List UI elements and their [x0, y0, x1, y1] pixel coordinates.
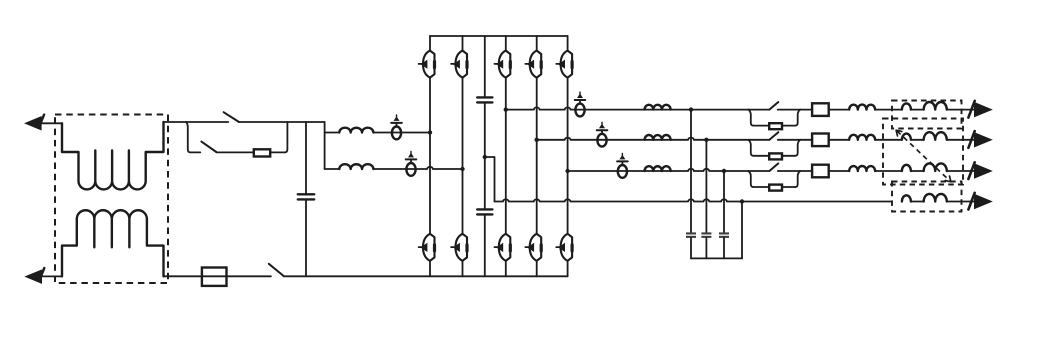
- resistor R3 (precharge): [769, 153, 782, 159]
- fuse FU1: [202, 268, 227, 286]
- wire cap bank bus: [691, 257, 742, 259]
- wire breaker left lead: [748, 109, 769, 111]
- wire fuse to inductor: [829, 170, 850, 172]
- wire through fuse: [202, 275, 227, 277]
- inductor L4b: [849, 105, 875, 110]
- wire to output module: [875, 109, 902, 111]
- wire leg4 lower: [536, 261, 538, 277]
- IGBT valve Q5 (top leg5): [568, 51, 573, 78]
- wire cap bank below Cc: [723, 238, 725, 259]
- wire bottom rail: [284, 275, 568, 277]
- wire transformer to switch: [164, 121, 187, 123]
- wire main after S1: [239, 121, 325, 123]
- wire phase B: [537, 138, 749, 140]
- wire leg1 middle: [429, 78, 431, 234]
- wire cap column lower: [305, 199, 307, 276]
- node A split to precharge branch: [186, 122, 190, 152]
- wire leg1 upper: [429, 36, 431, 51]
- inductor L5B (module choke): [902, 134, 911, 140]
- wire cap bank drop Cb: [705, 140, 707, 233]
- inductor L5A (module choke): [902, 103, 911, 109]
- ellipsis diagonal: [897, 131, 950, 181]
- wire breaker split corner: [748, 110, 753, 126]
- inductor L6N (module choke 2): [924, 194, 947, 202]
- wire module out C: [947, 170, 975, 172]
- inductor Lf2: [339, 164, 373, 169]
- IGBT valve Q6 (bottom leg1): [430, 234, 435, 261]
- IGBT valve Q4 (top leg4): [537, 51, 542, 78]
- wire DC link lower: [484, 214, 486, 276]
- fuse FU2: [812, 103, 829, 116]
- wire precharge branch b: [782, 186, 795, 188]
- wire module mid N: [911, 201, 924, 203]
- wire module out A: [947, 109, 975, 111]
- inductor L5N (module choke): [902, 195, 911, 201]
- output terminal arrow N: [975, 195, 992, 209]
- fuse FU3: [812, 134, 829, 147]
- IGBT valve Q2 (top leg2): [463, 51, 468, 78]
- wire precharge branch: [753, 186, 769, 188]
- switch S2 blade (precharge): [201, 142, 216, 152]
- wire leg2 middle: [462, 78, 464, 234]
- wire cap bank drop Cc: [723, 171, 725, 232]
- wire breaker left lead: [748, 139, 769, 141]
- wire DC link middle: [484, 102, 486, 209]
- wire breaker split corner: [748, 140, 753, 156]
- wire DC mid step to neutral: [485, 157, 495, 202]
- inductor L3b phase B: [645, 135, 671, 140]
- wire cap bank below Cb: [705, 238, 707, 259]
- arrester F5 phase C: [618, 165, 627, 178]
- wire leg3 middle: [505, 78, 507, 234]
- capacitor C1 (AC shunt): [298, 193, 314, 195]
- node leg2 tap: [460, 167, 464, 171]
- output slash B: [968, 131, 974, 148]
- wire cap bank drop Ca: [690, 110, 692, 233]
- wire breaker rejoin corner: [795, 171, 800, 187]
- wire fuse to inductor: [829, 109, 850, 111]
- wire leg3 upper: [505, 36, 507, 51]
- dashed box modules 2..n-1: [883, 119, 963, 185]
- dashed box module n: [892, 182, 962, 212]
- arrester F4 phase B: [597, 134, 606, 147]
- wire filter branch 2 start: [325, 168, 340, 170]
- node DC midpoint: [483, 155, 487, 159]
- wire leg2 lower: [462, 261, 464, 277]
- capacitor Cb (filter bank): [701, 232, 711, 234]
- wire leg5 lower: [567, 261, 569, 277]
- resistor R4 (precharge): [769, 185, 782, 191]
- capacitor C3 (DC link lower): [477, 208, 492, 210]
- wire fuse to inductor: [829, 139, 850, 141]
- wire precharge branch b: [782, 155, 795, 157]
- inductor L5C (module choke): [902, 165, 911, 171]
- node leg1 tap: [428, 130, 432, 134]
- arrester F1: [392, 126, 401, 139]
- wire input top: [41, 122, 62, 124]
- output slash A: [968, 101, 974, 118]
- wire leg4 upper: [536, 36, 538, 51]
- wire to output module: [875, 170, 902, 172]
- wire leg1 lower: [429, 261, 431, 277]
- wire cap bank below Ca: [690, 238, 692, 259]
- wire precharge branch: [753, 125, 769, 127]
- wire leg4 middle: [536, 78, 538, 234]
- output slash N: [968, 193, 974, 210]
- resistor R2 (precharge): [769, 123, 782, 129]
- wire module out B: [947, 139, 975, 141]
- wire to output module: [875, 139, 902, 141]
- output terminal arrow C: [975, 164, 992, 178]
- output slash C: [968, 162, 974, 179]
- wire phase C: [568, 169, 749, 171]
- inductor L4c: [849, 135, 875, 140]
- wire Lf1 to bridge leg1: [373, 132, 430, 134]
- arrester F2: [406, 163, 415, 176]
- node B rejoin vertical: [285, 122, 288, 152]
- node phase B filter tap: [704, 138, 708, 142]
- transformer dashed enclosure: [55, 115, 168, 284]
- capacitor Cc (filter bank): [719, 232, 729, 234]
- node leg3 tap phase A: [504, 107, 508, 111]
- wire module mid A: [911, 109, 924, 111]
- wire breaker rejoin corner: [795, 140, 800, 156]
- wire corner down to branches: [324, 122, 326, 169]
- output terminal arrow A: [975, 103, 992, 117]
- inductor L6A (module choke 2): [924, 102, 947, 110]
- output terminal arrow B: [975, 133, 992, 147]
- IGBT valve Q9 (bottom leg4): [537, 234, 542, 261]
- wire breaker left lead: [748, 170, 769, 172]
- wire leg2 upper: [462, 36, 464, 51]
- arrester F3 phase A: [575, 104, 584, 117]
- transformer primary winding W1: [62, 122, 164, 189]
- wire precharge branch: [753, 155, 769, 157]
- node leg4 tap phase B: [535, 138, 539, 142]
- wire breaker right lead: [778, 139, 812, 141]
- inductor L6C (module choke 2): [924, 163, 947, 171]
- switch S4 blade: [769, 163, 778, 171]
- input terminal arrow bottom (grid L2): [26, 270, 42, 283]
- transformer secondary winding W2: [62, 210, 164, 276]
- input terminal arrow top (grid L1): [25, 117, 41, 130]
- wire module mid C: [911, 170, 924, 172]
- wire breaker right lead: [778, 109, 812, 111]
- inductor L3a phase A: [645, 105, 671, 110]
- IGBT valve Q7 (bottom leg2): [463, 234, 468, 261]
- wire module mid B: [911, 139, 924, 141]
- wire breaker right lead: [778, 170, 812, 172]
- capacitor C2 (DC link upper): [477, 96, 492, 98]
- node phase C filter tap: [722, 169, 726, 173]
- wire module out N: [947, 201, 975, 203]
- node neutral tap: [740, 199, 744, 203]
- wire phase A: [506, 107, 749, 109]
- wire leg5 middle: [567, 78, 569, 234]
- node phase A filter tap: [689, 107, 693, 111]
- IGBT valve Q3 (top leg3): [506, 51, 511, 78]
- inductor L6B (module choke 2): [924, 132, 947, 140]
- wire breaker split corner: [748, 171, 753, 187]
- wire cap bank bus to neutral: [741, 202, 743, 259]
- wire leg3 lower: [505, 261, 507, 277]
- wire switch S1 left lead: [186, 121, 228, 123]
- wire precharge branch left: [191, 151, 201, 153]
- wire return from transformer: [164, 275, 203, 277]
- switch S2 blade: [769, 102, 778, 110]
- inductor L4d: [849, 166, 875, 171]
- wire filter branch 1 start: [325, 132, 340, 134]
- resistor R1 (precharge): [254, 149, 270, 156]
- wire DC link upper: [484, 36, 486, 97]
- wire neutral: [495, 199, 892, 201]
- IGBT valve Q8 (bottom leg3): [506, 234, 511, 261]
- switch S3 blade: [269, 264, 284, 276]
- inductor Lf1: [339, 128, 373, 133]
- wire resistor to node B: [254, 151, 285, 153]
- fuse FU4: [812, 165, 829, 178]
- wire fuse to switch S3: [227, 275, 271, 277]
- node leg5 tap phase C: [565, 169, 569, 173]
- IGBT valve Q1 (top leg1): [430, 51, 435, 78]
- wire precharge to resistor: [216, 151, 254, 153]
- wire breaker rejoin corner: [795, 110, 800, 126]
- wire precharge branch b: [782, 125, 795, 127]
- wire Lf2 to bridge leg2: [373, 167, 462, 169]
- capacitor Ca (filter bank): [686, 232, 696, 234]
- IGBT valve Q10 (bottom leg5): [568, 234, 573, 261]
- switch S3 blade: [769, 132, 778, 140]
- wire leg5 upper: [567, 36, 569, 51]
- dashed box module 1: [892, 101, 962, 129]
- wire DC top rail: [430, 35, 568, 37]
- inductor L3c phase C: [645, 166, 671, 171]
- switch S1 blade: [224, 112, 239, 122]
- wire input bottom: [41, 275, 62, 277]
- wire cap column upper: [305, 122, 307, 194]
